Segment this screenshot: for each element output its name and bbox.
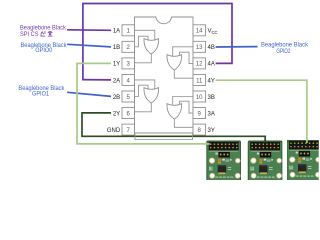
IC U1 quad OR gate body with notch (135, 17, 194, 133)
net label: Beaglebone Black GPIO0 (blue) (21, 43, 68, 54)
svg-text:1B: 1B (113, 45, 120, 51)
pin 14 box (193, 25, 206, 36)
OR gate U1B (pins 4,5 -> 6) (144, 88, 159, 103)
svg-text:GND: GND (107, 128, 121, 134)
OR gate U1C (pins 10,9 -> 8) (167, 104, 182, 119)
pin numbers (127, 29, 204, 134)
svg-text:3B: 3B (208, 95, 215, 101)
wire: pin 13 4B to GPIO2 label (blue) (216, 46, 258, 48)
svg-text:GPIO2: GPIO2 (276, 49, 291, 55)
pin 9 box (193, 108, 206, 119)
wire: SPI CS net vertical bus (purple) x=83 (82, 4, 84, 80)
internal wire: pin13 to gate4 input (173, 47, 193, 57)
internal wire: gate4 output to pin11 (174, 70, 193, 78)
wire: pin 3 1Y to board 1 (light green) (77, 63, 210, 143)
wire: 1Y wire end over board 1 (205, 143, 210, 145)
svg-text:2Y: 2Y (113, 111, 120, 117)
pin 12 box (193, 58, 206, 69)
stepper driver board 2 (248, 141, 282, 183)
svg-text:1Y: 1Y (113, 62, 120, 68)
svg-text:4A: 4A (208, 62, 215, 68)
svg-text:GPIO1: GPIO1 (32, 92, 50, 98)
wire: 2Y wire end over board 2 (264, 140, 266, 143)
pin 6 box (122, 108, 135, 119)
internal wire: pin4 to gate2 input (135, 80, 155, 90)
wire: pin 6 2Y to board 2 (dark green) (82, 113, 265, 143)
svg-text:12: 12 (196, 62, 203, 68)
internal wire: pin2 to gate1 input (135, 36, 149, 47)
wire: SPI CS branch to pin 2A (purple) (82, 79, 111, 81)
pin 10 box (193, 91, 206, 102)
svg-text:SPI CS: SPI CS (20, 32, 39, 38)
internal wire: pin10 to gate3 input (173, 97, 193, 106)
OR gate U1D (pins 13,12 -> 11) (167, 55, 182, 70)
wire: GPIO0 label to pin 1B (blue) (67, 44, 111, 47)
internal wire: pin12 to gate4 input (180, 52, 194, 63)
svg-text:13: 13 (196, 45, 203, 51)
pin 8 box (193, 124, 206, 135)
svg-text:4B: 4B (208, 45, 215, 51)
svg-text:Beaglebone Black: Beaglebone Black (261, 43, 309, 49)
internal wire: gate2 output to pin6 (135, 103, 152, 112)
stepper driver board 3 (clipped at right) (287, 140, 320, 182)
svg-text:3Y: 3Y (208, 128, 215, 134)
svg-text:1A: 1A (113, 29, 120, 35)
svg-text:11: 11 (196, 78, 203, 84)
internal wire: pin5 to gate2 input (135, 85, 149, 96)
pin name labels (107, 29, 218, 134)
internal wire: gate1 output to pin3 (135, 54, 152, 63)
net label: Beaglebone Black SPI CS (purple) (20, 25, 67, 38)
internal wire: pin9 to gate3 input (180, 101, 194, 113)
pin boxes left column (122, 25, 206, 135)
svg-text:10: 10 (196, 95, 203, 101)
svg-text:2B: 2B (113, 95, 120, 101)
pin 4 box (122, 74, 135, 85)
pin 7 box (122, 124, 135, 135)
internal wire: bus below chip (135, 133, 193, 140)
pin 3 box (122, 58, 135, 69)
wire: pin 11 4Y to board 3 (light green) (216, 80, 307, 143)
internal wire: pin1 to gate1 input (135, 30, 155, 40)
svg-text:2A: 2A (113, 78, 120, 84)
pin 1 box (122, 25, 135, 36)
wire: SPI CS net right vertical to pin 12 (purple) (216, 3, 232, 64)
wire: 4Y wire end over board 3 (306, 139, 308, 144)
net label: Beaglebone Black GPIO1 (blue) (18, 86, 65, 97)
svg-text:14: 14 (196, 29, 203, 35)
pin 13 box (193, 41, 206, 52)
stepper driver board 1 (207, 141, 241, 183)
hangul 신호 hand-drawn (41, 31, 53, 36)
pin 2 box (122, 41, 135, 52)
wire: SPI CS net top horizontal (purple) y=3.5 (82, 3, 232, 5)
OR gate U1A (pins 1,2 -> 3) (144, 39, 159, 54)
svg-text:3A: 3A (208, 111, 215, 117)
wire: GPIO1 label to pin 2B (blue) (67, 92, 111, 96)
svg-text:GPIO0: GPIO0 (35, 48, 53, 54)
svg-text:VCC: VCC (208, 29, 218, 35)
pin 11 box (193, 74, 206, 85)
internal wire: gate3 output to pin8 (174, 119, 193, 127)
wire: SPI CS label to pin 1A (purple) (67, 29, 111, 32)
svg-text:4Y: 4Y (208, 78, 215, 84)
pin 5 box (122, 91, 135, 102)
svg-text:Beaglebone Black: Beaglebone Black (20, 25, 67, 31)
net label: Beaglebone Black GPIO2 (blue) (261, 43, 309, 55)
